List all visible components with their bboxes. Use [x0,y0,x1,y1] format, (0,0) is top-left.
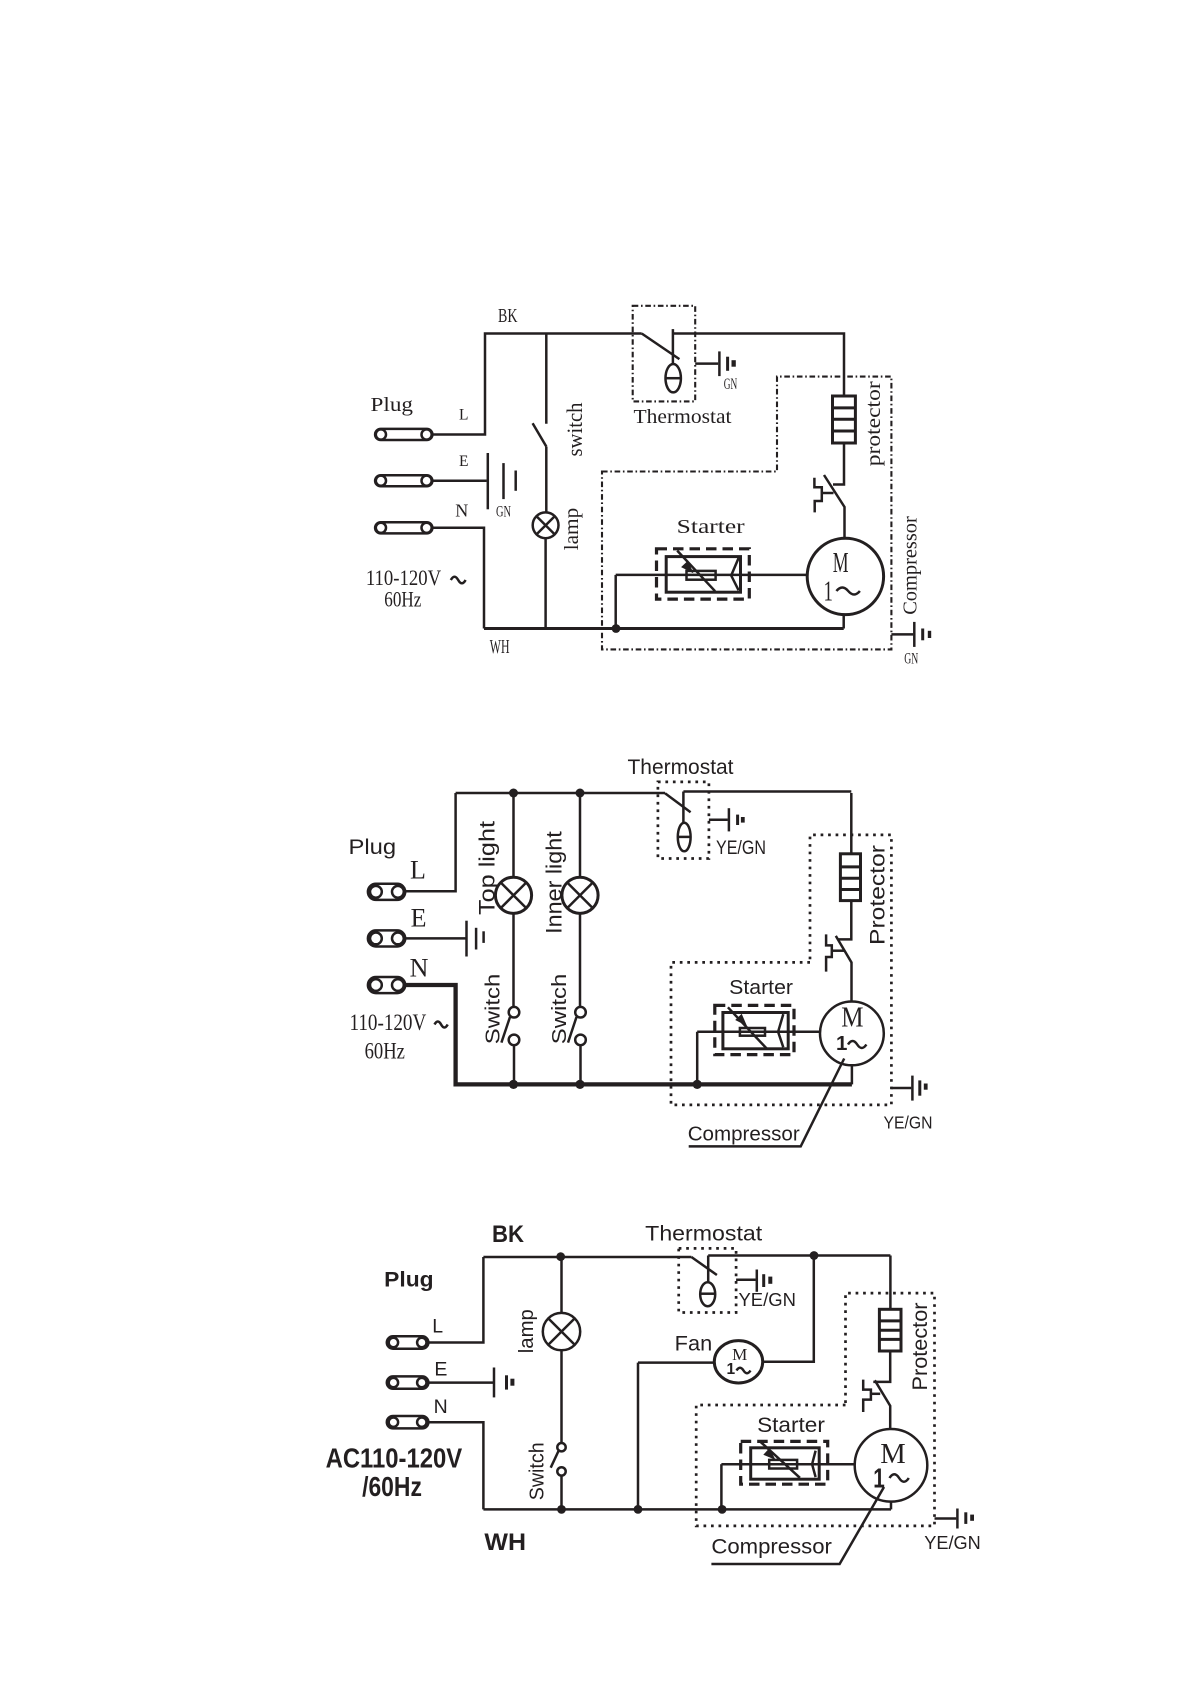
svg-text:Switch: Switch [548,974,571,1045]
svg-text:lamp: lamp [562,508,583,551]
svg-text:Thermostat: Thermostat [645,1223,762,1246]
svg-text:L: L [459,407,468,424]
svg-text:N: N [455,501,468,521]
svg-text:E: E [434,1358,447,1380]
svg-text:lamp: lamp [516,1309,538,1353]
svg-text:Thermostat: Thermostat [628,756,734,779]
svg-text:switch: switch [562,403,587,457]
svg-text:Protector: Protector [867,845,890,945]
svg-text:E: E [459,453,468,470]
svg-text:N: N [434,1396,448,1418]
svg-text:1: 1 [873,1463,885,1494]
svg-text:60Hz: 60Hz [365,1039,405,1065]
svg-text:/60Hz: /60Hz [362,1471,422,1502]
svg-text:N: N [410,954,429,983]
svg-text:YE/GN: YE/GN [884,1113,933,1133]
svg-text:Plug: Plug [371,394,414,416]
svg-text:Starter: Starter [677,517,746,538]
svg-text:GN: GN [904,651,918,668]
svg-text:GN: GN [496,504,511,521]
svg-text:60Hz: 60Hz [384,587,421,612]
svg-text:AC110-120V: AC110-120V [326,1443,463,1474]
svg-text:E: E [411,903,427,932]
svg-text:Plug: Plug [349,836,397,859]
svg-text:protector: protector [861,381,885,466]
svg-text:M: M [841,1002,863,1034]
svg-text:L: L [432,1315,443,1337]
svg-text:WH: WH [484,1529,526,1556]
svg-text:BK: BK [492,1221,524,1248]
svg-text:YE/GN: YE/GN [739,1290,796,1310]
svg-text:Compressor: Compressor [900,516,922,615]
svg-text:L: L [410,856,426,885]
svg-text:Compressor: Compressor [711,1536,832,1559]
svg-text:YE/GN: YE/GN [716,838,766,859]
svg-text:Switch: Switch [526,1442,549,1500]
svg-text:Compressor: Compressor [688,1123,800,1146]
svg-text:Switch: Switch [482,974,505,1045]
svg-text:Fan: Fan [675,1332,713,1355]
svg-text:WH: WH [490,637,510,658]
svg-text:Protector: Protector [908,1303,932,1391]
svg-text:1: 1 [836,1032,847,1055]
svg-text:Top light: Top light [474,821,499,915]
svg-text:Plug: Plug [384,1269,433,1292]
svg-text:1: 1 [727,1361,736,1378]
svg-text:Thermostat: Thermostat [634,407,733,428]
svg-text:BK: BK [498,306,518,327]
svg-text:1: 1 [824,577,833,608]
svg-text:110-120V: 110-120V [350,1010,427,1036]
svg-text:GN: GN [724,376,738,393]
svg-text:YE/GN: YE/GN [924,1533,981,1553]
svg-text:Starter: Starter [729,976,793,999]
svg-text:Starter: Starter [757,1414,825,1437]
svg-text:M: M [833,547,849,579]
svg-text:Inner light: Inner light [542,831,567,934]
